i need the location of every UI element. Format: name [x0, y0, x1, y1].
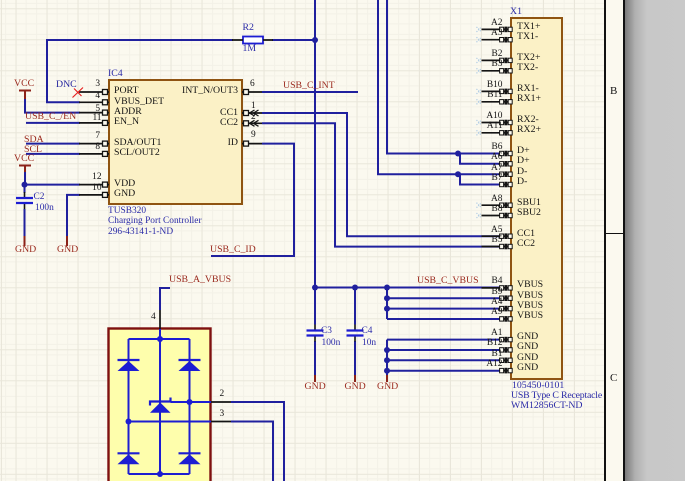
wire VBUS vertical tie [386, 288, 388, 320]
designator label C2 [34, 191, 45, 203]
designator label IC4 [108, 68, 123, 80]
junction VBUS at C3 [312, 285, 318, 291]
pin B2 of X1 [482, 58, 513, 64]
pin number 9 [251, 129, 256, 141]
pin name TX1+ of X1 (pin A2) [517, 21, 540, 33]
pin number 7 [88, 130, 100, 142]
pin B4 of X1 [482, 285, 513, 291]
pin designator B5 of X1 [459, 234, 503, 246]
pin B9 of X1 [500, 295, 513, 301]
wire net USB_C_ID from IC4 pin 9 ID [211, 144, 294, 256]
ground label under C4 [345, 381, 366, 393]
pin name D+ of X1 (pin A6) [517, 155, 530, 167]
wire bridge pin 3 output [231, 422, 273, 481]
pin designator B11 of X1 [459, 89, 503, 101]
pin 3 stub of bridge [211, 421, 231, 423]
pin designator B7 of X1 [459, 172, 503, 184]
zone letter C [610, 372, 617, 384]
junction VDD/C2 node [22, 182, 28, 188]
pin A8 of X1 [482, 202, 513, 208]
wire C4 to ground [354, 341, 356, 375]
wire net USB_C_INT from IC4 pin 6 [262, 91, 358, 93]
supplier part label of IC4 [108, 226, 173, 238]
junction node VBUS_DET/R2 [312, 37, 318, 43]
ground label under C2 [15, 244, 36, 256]
pin A3 of X1 [482, 37, 513, 43]
resistor R2 body [243, 37, 263, 44]
wire VCC to IC4 pin 5 ADDR [25, 98, 80, 113]
pin name VDD [114, 178, 135, 190]
value label 100n of C3 [322, 337, 341, 349]
pin number 12 [90, 171, 102, 183]
wire R2 left terminal to IC4 pin 4 VBUS_DET [47, 40, 233, 102]
pin name RX2- of X1 (pin A10) [517, 114, 539, 126]
pin name GND of X1 (pin A12) [517, 362, 538, 374]
sheet outer border line [623, 0, 625, 481]
wire D- branch to X1 pin B7 [460, 174, 500, 184]
pin name SBU2 of X1 (pin B8) [517, 207, 541, 219]
pin number 6 [250, 78, 255, 90]
pin 5 ADDR of IC4 [79, 110, 109, 115]
pin A5 of X1 [482, 233, 513, 239]
IC body IC4 TUSB320 box [109, 80, 242, 204]
pin name EN_N [114, 116, 139, 128]
zone letter B [610, 85, 617, 97]
pin A6 of X1 [500, 161, 513, 167]
pin designator B9 of X1 [459, 286, 503, 298]
pin A7 of X1 [500, 171, 513, 177]
wire D+ rail to X1 pin B6 [387, 0, 500, 154]
pin B10 of X1 [482, 89, 513, 95]
wire R2 right terminal to node VBUS [272, 39, 315, 41]
pin B11 of X1 [482, 99, 513, 105]
wire net USB_C_VBUS to X1 pin B4 [315, 287, 500, 289]
wire D- rail to X1 pin A7 [378, 0, 500, 174]
pin number 5 [88, 103, 100, 115]
wire node USB_C_VBUS vertical rail x=315 [314, 0, 316, 325]
power symbol VCC (top) [19, 91, 31, 100]
bridge pin3 junction [126, 419, 132, 425]
outside-sheet gray area [625, 0, 685, 481]
junction VBUS pin B9 tap [384, 295, 390, 301]
pin name GND [114, 188, 135, 200]
part number label 105450-0101 [512, 380, 564, 392]
diode left-bottom of bridge [118, 453, 140, 464]
wire net USB_C_/EN to IC4 pin 11 EN_N [26, 122, 80, 124]
compile marks (no-ERC) at unconnected pins [477, 27, 482, 218]
designator label X1 [510, 6, 522, 18]
junction GND pin B12 tap [384, 347, 390, 353]
pin A11 of X1 [482, 130, 513, 136]
wire GND to X1 pin A12 [387, 370, 500, 372]
pin name GND of X1 (pin B1) [517, 352, 538, 364]
diode bridge body box [109, 329, 211, 481]
pin 3 PORT of IC4 [79, 90, 109, 95]
pin designator A1 of X1 [459, 327, 503, 339]
pin designator A9 of X1 [459, 306, 503, 318]
net label SCL [24, 144, 42, 156]
pin designator B2 of X1 [459, 48, 503, 60]
power stem of ground symbol under C2 [24, 236, 26, 246]
pin name D- of X1 (pin B7) [517, 176, 527, 188]
pin A10 of X1 [482, 120, 513, 126]
pin designator B12 of X1 [459, 337, 503, 349]
pin B6 of X1 [500, 151, 513, 157]
pin 8 SCL/OUT2 of IC4 [79, 151, 109, 156]
pin designator B3 of X1 [459, 58, 503, 70]
pin name TX1- of X1 (pin A3) [517, 31, 538, 43]
pin designator B8 of X1 [459, 203, 503, 215]
wire VBUS to X1 pin A4 [387, 308, 500, 310]
pin number 4 [88, 90, 100, 102]
wire net USB_A_VBUS to bridge pin 4 [160, 288, 170, 310]
diode left-top of bridge [118, 360, 140, 371]
power stem of ground symbol under C4 [354, 375, 356, 382]
value label 100n of C2 [35, 202, 54, 214]
capacitor C3 symbol [307, 325, 324, 342]
pin designator A7 of X1 [459, 162, 503, 174]
wire GND to X1 pin B12 [387, 349, 500, 351]
wire GND to X1 pin B1 [387, 359, 500, 361]
supplier part label WM12856CT-ND [511, 400, 582, 412]
pin name SDA/OUT1 [114, 137, 161, 149]
pin B7 of X1 [500, 182, 513, 188]
pin name VBUS of X1 (pin A4) [517, 300, 543, 312]
ground label under pin 10 [57, 244, 78, 256]
pin number 4 of bridge [151, 311, 156, 323]
power label VCC lower [14, 153, 34, 165]
pin name CC2 [181, 117, 238, 129]
description label of IC4 [108, 215, 202, 227]
bridge internal wiring [129, 329, 212, 474]
pin 9 ID of IC4 [242, 141, 262, 146]
net label USB_C_INT [283, 80, 335, 92]
junction VBUS rail top [384, 285, 390, 291]
pin name TX2- of X1 (pin B3) [517, 62, 538, 74]
zener diode center of bridge [150, 398, 171, 413]
pin name INT_N/OUT3 [181, 85, 238, 97]
wire GND bus from X1 pin A1 [387, 340, 500, 375]
pin number 2 [251, 111, 256, 123]
wire VCC to IC4 pin 12 VDD [24, 171, 80, 185]
pin A4 of X1 [500, 306, 513, 312]
pin designator A10 of X1 [459, 110, 503, 122]
junction D+ node [455, 151, 461, 157]
wire D+ branch to X1 pin A6 [460, 154, 500, 164]
pin name ADDR [114, 106, 142, 118]
power stem of ground symbol under C3 [314, 375, 316, 382]
wire VBUS to X1 pin B9 [387, 297, 500, 299]
pin 4 VBUS_DET of IC4 [79, 100, 109, 105]
pin B5 of X1 [482, 244, 513, 250]
net label USB_C_ID [210, 244, 256, 256]
wire IC4 pin 10 GND down to ground [67, 195, 80, 236]
ground label under C3 [305, 381, 326, 393]
capacitor C4 symbol [347, 325, 364, 342]
wire VDD node down to C2 [24, 185, 26, 193]
pin A2 of X1 [482, 27, 513, 33]
pin 2 stub of bridge [211, 401, 231, 403]
pin name RX1+ of X1 (pin B11) [517, 93, 541, 105]
pin number 11 [90, 112, 102, 124]
pin designator A8 of X1 [459, 193, 503, 205]
pin name RX1- of X1 (pin B10) [517, 83, 539, 95]
designator label C3 [321, 325, 332, 337]
diode right-top of bridge [179, 360, 201, 371]
wire CC1 from IC4 to X1 pin A5 [262, 113, 500, 236]
junction VBUS at C4 [352, 285, 358, 291]
wire bridge pin 2 output [231, 402, 284, 481]
pin 2 CC2 of IC4 [242, 120, 262, 126]
bridge bottom junction [157, 471, 163, 477]
pin designator A11 of X1 [459, 120, 503, 132]
pin number 8 [88, 141, 100, 153]
pin B3 of X1 [482, 68, 513, 74]
pin name D- of X1 (pin A7) [517, 166, 527, 178]
pin name VBUS of X1 (pin A9) [517, 310, 543, 322]
pin name RX2+ of X1 (pin A11) [517, 124, 541, 136]
junction VBUS pin A4 tap [384, 306, 390, 312]
pin name GND of X1 (pin A1) [517, 331, 538, 343]
designator label R2 [243, 22, 254, 34]
description label USB Type C Receptacle [511, 390, 602, 402]
pin name PORT [114, 85, 138, 97]
pin designator A2 of X1 [459, 17, 503, 29]
pin B12 of X1 [500, 347, 513, 353]
power symbol VCC (lower) [19, 166, 31, 173]
ground label under X1 GND bus [377, 381, 398, 393]
wire net SDA to IC4 pin 7 [26, 143, 80, 145]
pin number 3 [88, 78, 100, 90]
pin 6 INT_N/OUT3 of IC4 [242, 90, 262, 95]
power stem of ground symbol under IC4 GND pin [66, 236, 68, 246]
pin number 10 [90, 182, 102, 194]
net label USB_A_VBUS [169, 274, 231, 286]
pin designator A6 of X1 [459, 151, 503, 163]
pin designator B1 of X1 [459, 348, 503, 360]
pin number 1 [251, 100, 256, 112]
pin B8 of X1 [482, 213, 513, 219]
junction GND pin B1 tap [384, 357, 390, 363]
value label 1M [243, 43, 257, 55]
pin name D+ of X1 (pin B6) [517, 145, 530, 157]
wire net SCL to IC4 pin 8 [26, 153, 80, 155]
connector X1 body box [511, 18, 562, 379]
pin designator A5 of X1 [459, 224, 503, 236]
pin 11 EN_N of IC4 [79, 120, 109, 125]
net label USB_C_/EN [25, 111, 76, 123]
pin designator B10 of X1 [459, 79, 503, 91]
wire CC2 from IC4 to X1 pin B5 [262, 123, 500, 246]
value label 10n of C4 [362, 337, 376, 349]
pin name VBUS of X1 (pin B4) [517, 279, 543, 291]
net label SDA [24, 134, 44, 146]
power stem of ground symbol under X1 GND bus [386, 375, 388, 382]
pin name SBU1 of X1 (pin A8) [517, 197, 541, 209]
pin name VBUS of X1 (pin B9) [517, 290, 543, 302]
pin 1 CC1 of IC4 [242, 110, 262, 116]
sheet zone divider tick [604, 233, 625, 235]
wire VBUS down to C4 [354, 288, 356, 325]
pin name GND of X1 (pin B12) [517, 341, 538, 353]
pin name VBUS_DET [114, 96, 164, 108]
sheet inner border line [604, 0, 606, 481]
pin designator A4 of X1 [459, 296, 503, 308]
junction GND pin A12 tap [384, 368, 390, 374]
pin number 3 of bridge [220, 408, 225, 420]
bridge pin2 junction [187, 399, 193, 405]
pin name CC2 of X1 (pin B5) [517, 238, 535, 250]
designator label C4 [362, 325, 373, 337]
pin 10 GND of IC4 [79, 192, 109, 197]
wire C2 to ground [24, 209, 26, 236]
pin name SCL/OUT2 [114, 147, 160, 159]
power label VCC top [14, 78, 34, 90]
no-connect cross on IC4 pin 3 [73, 88, 84, 98]
capacitor C2 symbol [16, 192, 33, 209]
pin designator A3 of X1 [459, 27, 503, 39]
pin name ID [181, 137, 238, 149]
pin designator B4 of X1 [459, 275, 503, 287]
pin designator A12 of X1 [459, 358, 503, 370]
label DNC [56, 79, 77, 91]
pin A12 of X1 [500, 368, 513, 374]
part number label TUSB320 [108, 205, 146, 217]
pin name TX2+ of X1 (pin B2) [517, 52, 540, 64]
pin A9 of X1 [500, 316, 513, 322]
pin designator B6 of X1 [459, 141, 503, 153]
pin 4 stub of bridge [159, 310, 161, 329]
wire C3 to ground [314, 341, 316, 375]
wire VBUS to X1 pin A9 [387, 318, 500, 320]
diode right-bottom of bridge [179, 453, 201, 464]
pin name CC1 of X1 (pin A5) [517, 228, 535, 240]
pin name CC1 [181, 107, 238, 119]
pin 7 SDA/OUT1 of IC4 [79, 141, 109, 146]
pin A1 of X1 [500, 337, 513, 343]
pin B1 of X1 [500, 358, 513, 364]
bridge top junction [157, 336, 163, 342]
pin 12 VDD of IC4 [79, 182, 109, 187]
pin number 2 of bridge [220, 388, 225, 400]
net label USB_C_VBUS [417, 275, 479, 287]
junction D- node [455, 171, 461, 177]
